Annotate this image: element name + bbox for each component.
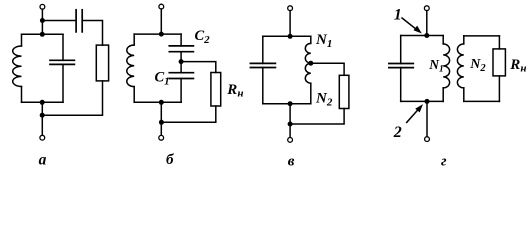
wire (top terminal to tank, circuit v)	[289, 11, 291, 37]
wire (secondary coil bottom segment, circuit g)	[463, 88, 465, 102]
terminal (bottom, circuit a)	[40, 135, 45, 140]
wire (C1 to tank bottom, circuit b)	[180, 79, 182, 103]
wire (primary bottom edge, circuit g)	[401, 100, 444, 102]
capacitor (tank, circuit a)	[50, 60, 74, 64]
wire (tank left bottom segment, circuit b)	[133, 87, 135, 103]
terminal (top input, circuit a)	[40, 4, 45, 9]
resistor RN (load, circuit g)	[493, 49, 505, 76]
terminal (bottom, circuit g)	[425, 137, 430, 142]
wire (tank bottom edge, circuit b)	[134, 101, 181, 103]
capacitor (primary tank, circuit g)	[389, 64, 413, 68]
inductor N2 (lower section, circuit v)	[305, 63, 311, 83]
node (tank top junction, circuit b)	[159, 32, 164, 37]
svg-text:б: б	[166, 152, 174, 168]
wire (tank top edge, circuit a)	[22, 33, 64, 35]
wire (coupling capacitor to load branch, circuit a)	[83, 21, 102, 46]
inductor N1 (primary, circuit g)	[443, 44, 449, 88]
node (tank bottom junction, circuit b)	[159, 100, 164, 105]
inductor (tank coil, circuit a)	[13, 46, 22, 86]
terminal (top input, circuit v)	[288, 6, 293, 11]
capacitor C1	[169, 73, 193, 79]
wire (tank left top segment, circuit v)	[262, 36, 264, 63]
inductor (tank coil, circuit b)	[127, 45, 134, 87]
wire (divider node to C1, circuit b)	[180, 62, 182, 73]
inductor N2 (secondary, circuit g)	[457, 44, 463, 88]
svg-text:2: 2	[393, 124, 402, 141]
wire (load resistor to bottom node, circuit a)	[42, 81, 102, 115]
node (feed junction, circuit a)	[40, 18, 45, 23]
svg-text:N1: N1	[428, 57, 444, 75]
svg-text:1: 1	[394, 6, 402, 23]
svg-text:N2: N2	[469, 57, 486, 74]
wire (bottom node to terminal, circuit g)	[426, 101, 428, 136]
resistor RN (load, circuit b)	[211, 73, 221, 107]
resistor (load, circuit a)	[96, 45, 108, 81]
arrow (pointer to node 1)	[402, 18, 422, 34]
node (load return junction, circuit v)	[288, 122, 293, 127]
svg-text:а: а	[39, 151, 47, 168]
node 2 (bottom junction, circuit g)	[425, 99, 430, 104]
svg-text:N1: N1	[315, 32, 332, 50]
node (tank bottom junction, circuit v)	[288, 101, 293, 106]
wire (divider node to load resistor, circuit b)	[181, 62, 216, 73]
node 1 (top junction, circuit g)	[424, 33, 429, 38]
terminal (top input, circuit b)	[159, 4, 164, 9]
node (load return junction, circuit a)	[40, 113, 45, 118]
node (load return junction, circuit b)	[159, 120, 164, 125]
wire (load resistor return, circuit b)	[161, 106, 215, 122]
node (coil tap, circuit v)	[308, 61, 313, 66]
wire (primary left top segment, circuit g)	[400, 36, 402, 64]
wire (top edge to coil N1, circuit v)	[310, 36, 312, 43]
wire (secondary top edge, circuit g)	[464, 35, 500, 37]
capacitor C2	[169, 46, 193, 52]
capacitor (series coupling, circuit a)	[76, 10, 82, 32]
wire (primary coil bottom segment, circuit g)	[442, 88, 444, 102]
wire (top terminal to primary, circuit g)	[426, 11, 428, 36]
node (capacitive divider junction, circuit b)	[179, 59, 184, 64]
wire (top terminal to tank, circuit b)	[160, 9, 162, 34]
svg-text:N2: N2	[315, 90, 333, 108]
inductor N1 (upper section, circuit v)	[305, 43, 311, 63]
svg-text:в: в	[288, 153, 295, 169]
resistor (load, circuit v)	[339, 75, 349, 108]
wire (tank left top segment, circuit b)	[133, 34, 135, 45]
terminal (bottom, circuit v)	[288, 138, 293, 143]
wire (tank left top segment, circuit a)	[21, 34, 23, 46]
wire (secondary right bottom segment, circuit g)	[498, 76, 500, 102]
wire (coil bottom segment, circuit v)	[310, 83, 312, 104]
wire (secondary right top segment, circuit g)	[498, 36, 500, 49]
svg-text:Rн: Rн	[226, 82, 243, 100]
wire (tank right top segment, circuit a)	[62, 34, 64, 60]
capacitor (tank, circuit v)	[250, 63, 275, 67]
svg-text:г: г	[441, 153, 447, 169]
wire (tank bottom edge, circuit v)	[263, 103, 311, 105]
wire (primary top edge to coil, circuit g)	[442, 36, 444, 44]
arrow (pointer to node 2)	[407, 104, 423, 122]
node (tank top junction, circuit a)	[40, 32, 45, 37]
wire (feed to coupling capacitor, circuit a)	[42, 20, 75, 22]
wire (tank top edge, circuit v)	[263, 35, 311, 37]
terminal (bottom, circuit b)	[159, 135, 164, 140]
wire (primary top edge, circuit g)	[401, 35, 444, 37]
wire (bottom node to terminal, circuit b)	[160, 102, 162, 135]
wire (tank bottom edge, circuit a)	[22, 101, 64, 103]
terminal (top input, circuit g)	[424, 6, 429, 11]
wire (bottom node to terminal, circuit a)	[41, 102, 43, 135]
wire (bottom node to terminal, circuit v)	[289, 104, 291, 138]
wire (secondary left top segment, circuit g)	[463, 36, 465, 44]
svg-text:C1: C1	[155, 69, 170, 87]
wire (load resistor return, circuit v)	[290, 109, 344, 125]
node (tank bottom junction, circuit a)	[40, 100, 45, 105]
wire (secondary bottom edge, circuit g)	[464, 100, 500, 102]
svg-text:Rн: Rн	[509, 57, 526, 75]
wire (primary left bottom segment, circuit g)	[400, 68, 402, 102]
wire (tap to load resistor, circuit v)	[311, 63, 344, 75]
svg-text:C2: C2	[195, 28, 211, 46]
wire (top edge to C2, circuit b)	[180, 34, 182, 46]
wire (C2 to divider node, circuit b)	[180, 52, 182, 62]
wire (top terminal to tank, circuit a)	[41, 9, 43, 34]
wire (tank right bottom segment, circuit a)	[62, 64, 64, 102]
wire (tank top edge, circuit b)	[134, 33, 181, 35]
wire (tank left bottom segment, circuit v)	[262, 68, 264, 104]
node (tank top junction, circuit v)	[288, 34, 293, 39]
wire (tank left bottom segment, circuit a)	[21, 87, 23, 103]
